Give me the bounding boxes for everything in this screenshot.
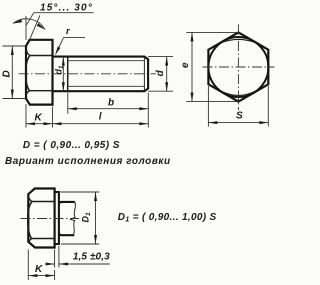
dimension d extension lines	[148, 57, 173, 92]
dimension K2 line	[28, 274, 54, 277]
label K	[35, 113, 43, 124]
washer flange	[55, 192, 59, 244]
label d1	[54, 65, 66, 75]
dimension b line	[68, 107, 149, 110]
dimension S extension lines	[208, 86, 268, 127]
dimension D1 line	[94, 192, 97, 244]
label l	[99, 111, 102, 122]
dimension D extension lines	[3, 46, 26, 99]
hex head chamfer circle	[208, 37, 268, 97]
shank stub	[59, 202, 75, 235]
variant head outline	[28, 189, 54, 248]
dimension K line	[26, 122, 53, 125]
svg-text:e: e	[180, 62, 191, 68]
hex view horizontal centerline	[203, 66, 275, 68]
dimension d line	[165, 57, 168, 92]
label b	[108, 98, 114, 109]
dimension l line	[53, 122, 149, 125]
chamfer angle arc	[13, 19, 46, 31]
svg-text:r: r	[66, 26, 71, 37]
variant head chamfer arc (middle face)	[28, 202, 32, 239]
dimension S line	[208, 121, 268, 124]
dimension b extension line	[67, 93, 69, 114]
dimension e extension lines	[186, 32, 238, 101]
thread minor diameter lines	[68, 61, 145, 87]
svg-text:D1: D1	[81, 212, 93, 223]
dimension K extension line	[25, 104, 27, 128]
svg-text:15°... 30°: 15°... 30°	[40, 2, 93, 13]
dimension 1,5 leader	[46, 263, 110, 266]
variant axis centerline	[21, 218, 80, 220]
svg-text:d: d	[155, 69, 166, 76]
head chamfer arc (middle face)	[26, 56, 30, 91]
dimension D line	[11, 46, 14, 99]
svg-text:D = ( 0,90... 0,95) S: D = ( 0,90... 0,95) S	[23, 140, 120, 151]
variant head chamfer arc (bottom face)	[29, 239, 32, 244]
label D	[2, 70, 13, 77]
chamfer angle leader	[26, 13, 93, 26]
head face boundary lines	[30, 56, 53, 91]
bolt head side view outline	[26, 40, 53, 105]
dimension d1 line	[62, 57, 65, 92]
variant head chamfer arc (top face)	[29, 197, 33, 202]
chamfer angle extension lines	[26, 15, 40, 40]
thread end chamfer line	[143, 57, 145, 92]
svg-text:D1 = ( 0,90... 1,00) S: D1 = ( 0,90... 1,00) S	[118, 212, 217, 224]
svg-text:1,5 ±0,3: 1,5 ±0,3	[73, 252, 110, 263]
hex head end view: hexagon	[208, 32, 268, 101]
hex view vertical centerline	[237, 25, 239, 111]
bolt axis centerline	[19, 73, 157, 75]
dimension l extension lines	[53, 93, 149, 128]
thread run-out line	[67, 57, 69, 92]
label d	[155, 69, 166, 76]
svg-text:Вариант исполнения головки: Вариант исполнения головки	[5, 156, 171, 167]
leader r	[54, 38, 85, 56]
label K2	[35, 264, 43, 275]
dimension e line	[191, 32, 194, 101]
dimension K2 extension lines	[28, 250, 54, 281]
chamfer arc near bottom vertex	[222, 91, 256, 95]
variant head face boundary lines	[32, 202, 55, 239]
dimension 1,5 extension lines	[55, 246, 59, 268]
formula D=(0,90...0,95)S	[23, 140, 120, 151]
head chamfer arc (bottom face)	[26, 91, 29, 95]
label S	[236, 111, 243, 122]
svg-text:K: K	[35, 264, 43, 275]
svg-text:D: D	[2, 70, 13, 77]
label 15...30 degrees	[40, 2, 93, 13]
label r	[66, 26, 71, 37]
svg-text:K: K	[35, 113, 43, 124]
chamfer arc near top vertex	[222, 39, 255, 42]
caption: head variant (Russian)	[5, 156, 171, 167]
shank break line	[71, 202, 76, 235]
dimension D1 extension lines	[61, 192, 100, 244]
formula D1=(0,90...1,00)S	[118, 212, 217, 224]
svg-text:l: l	[99, 111, 102, 122]
label D1	[81, 212, 93, 223]
svg-text:S: S	[236, 111, 243, 122]
head chamfer arc (top face)	[26, 50, 30, 56]
bolt shank outline	[53, 57, 149, 92]
label 1,5 +-0,3	[73, 252, 110, 263]
label e	[180, 62, 191, 68]
svg-text:d1: d1	[54, 65, 66, 75]
svg-text:b: b	[108, 98, 114, 109]
